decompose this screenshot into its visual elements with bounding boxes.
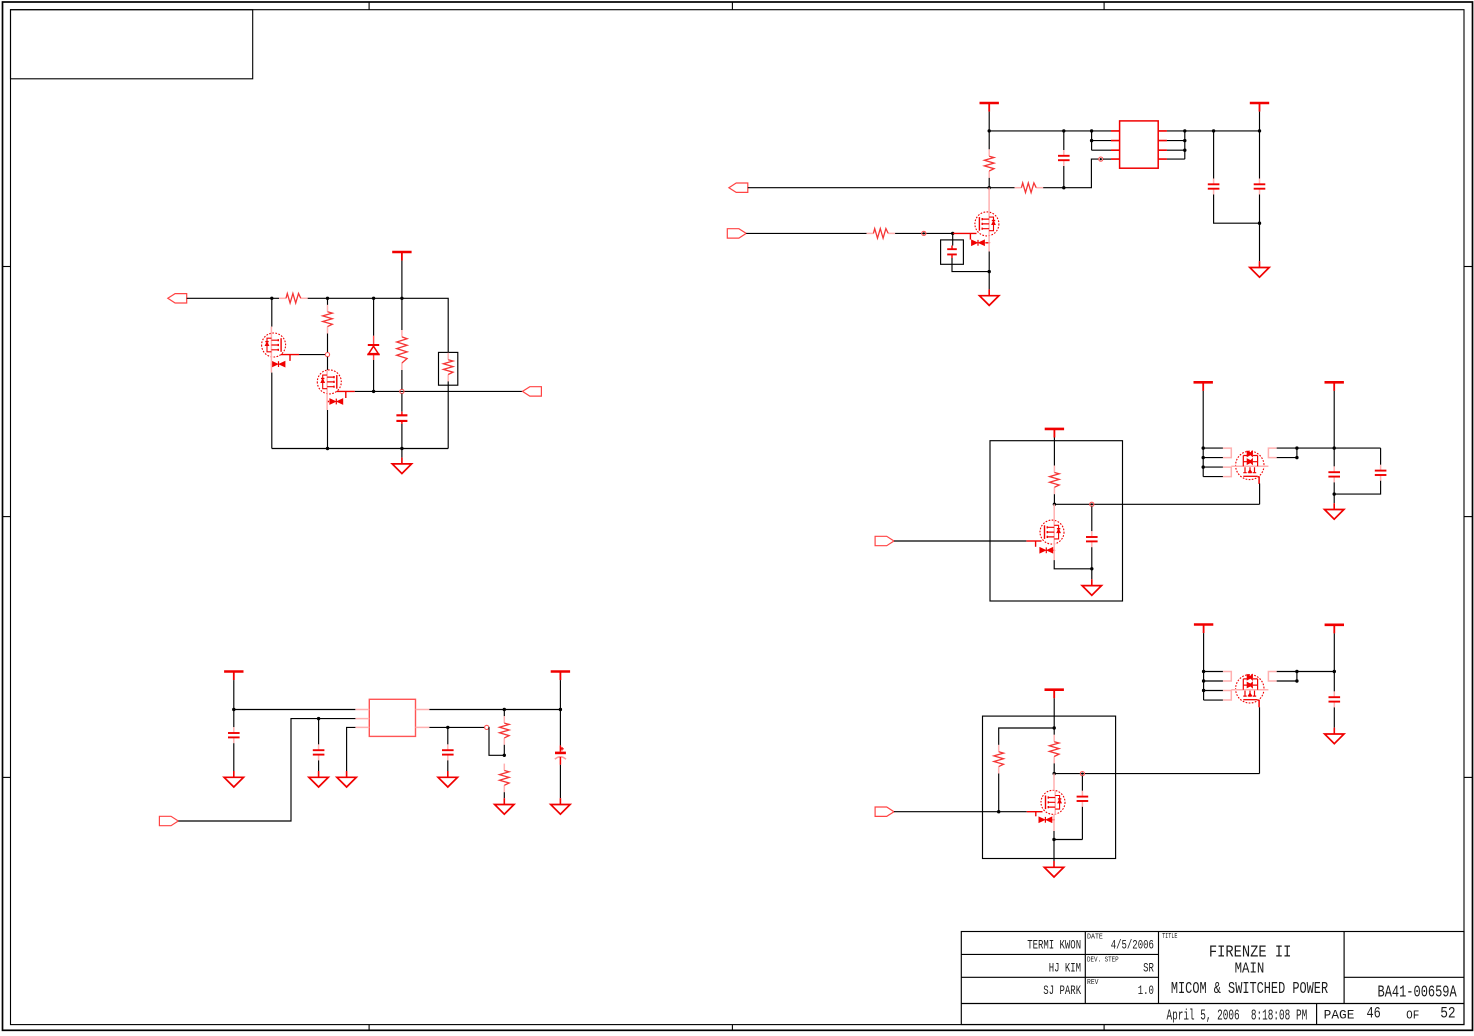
power VCC P2 (1250, 103, 1269, 112)
power VCC P9 (1325, 625, 1344, 634)
node source (1052, 838, 1055, 841)
power VCC P6 (1325, 382, 1344, 391)
wire Q7 output rail (1297, 671, 1334, 673)
zone tick bottom 1 (368, 1025, 370, 1031)
node P10 rail (232, 708, 235, 711)
capacitor C9 (1081, 776, 1083, 791)
capacitor C7 (1333, 448, 1335, 466)
svg-text:MICOM & SWITCHED POWER: MICOM & SWITCHED POWER (1171, 980, 1328, 999)
node rail P6 (1333, 446, 1336, 449)
wire Q4 source (1053, 544, 1055, 560)
wire mid rail (748, 187, 989, 189)
zone tick right 2 (1464, 516, 1473, 518)
node rail junction at pin link (1090, 129, 1093, 132)
resistor R1 vertical (984, 149, 994, 178)
wire top left (187, 297, 279, 299)
open circle D (1080, 772, 1084, 776)
power VCC P3 (392, 252, 411, 261)
node gate R8 (997, 810, 1000, 813)
node R7 bottom (1053, 503, 1056, 506)
power VCC P8 (1194, 625, 1213, 634)
IC U2 left pins (355, 710, 369, 728)
capacitor C8 (1380, 448, 1382, 465)
open circle node A (325, 353, 329, 357)
zener Z4 (1035, 541, 1037, 547)
regulator IC U1 (1120, 121, 1159, 168)
wire Q7 right pins (1277, 672, 1297, 682)
dual mosfet Q5 (1223, 448, 1277, 484)
wire mid rail (355, 390, 523, 392)
wire to ground (401, 449, 403, 458)
wire top rail (308, 298, 449, 352)
wire gate (894, 811, 1027, 813)
svg-text:TITLE: TITLE (1162, 933, 1177, 941)
zone tick top 2 (731, 2, 733, 10)
svg-text:FIRENZE II: FIRENZE II (1209, 943, 1292, 962)
open circle E (485, 725, 489, 729)
node top junction R4 (326, 297, 329, 300)
transistor Q2 mosfet (mirrored) (262, 333, 286, 357)
wire P10 down (233, 680, 235, 709)
svg-text:SJ PARK: SJ PARK (1043, 984, 1081, 998)
resistor R3h horizontal (1015, 183, 1044, 193)
node mid junction (988, 186, 991, 189)
zone tick left 3 (3, 776, 11, 778)
wire oc elbow (489, 727, 505, 755)
transistor Q6 mosfet (1041, 790, 1065, 814)
node mid D1 (372, 390, 375, 393)
wire output rail (1185, 130, 1260, 132)
connector EN1 (875, 536, 894, 545)
zone tick left 2 (3, 516, 11, 518)
svg-text:TERMI KWON: TERMI KWON (1027, 938, 1081, 952)
ground G13 (551, 798, 570, 814)
ground G5 (1325, 503, 1344, 519)
zone tick top 3 (1103, 2, 1105, 10)
svg-text:BA41-00659A: BA41-00659A (1378, 983, 1458, 1002)
zone tick bottom 2 (731, 1025, 733, 1031)
wire P9 down (1333, 633, 1335, 671)
wire power P3 down (401, 261, 403, 299)
wire oc to pin4 (1103, 158, 1111, 160)
zener Z2 (289, 355, 291, 361)
wire feedback from pin4 (1064, 159, 1099, 188)
capacitor C6 (1091, 506, 1093, 531)
wire left branch (999, 728, 1054, 745)
ground G4 (1082, 579, 1101, 595)
svg-text:PAGE: PAGE (1324, 1008, 1355, 1022)
ground G12 (495, 798, 514, 814)
connector OUT-ML (168, 294, 187, 303)
node bottom gnd (400, 447, 403, 450)
resistor R2 horizontal (867, 229, 896, 239)
connector EN2 (875, 807, 894, 816)
wire power P1 to rail (988, 112, 990, 131)
resistor R8 (994, 745, 1004, 774)
open circle gate (922, 231, 926, 235)
wire Q1 gate red (953, 232, 977, 234)
power VCC P5 (1194, 382, 1213, 391)
wire cap C1 leads (1063, 131, 1065, 188)
resistor R9 (1049, 735, 1059, 764)
node link pin2 (1090, 139, 1093, 142)
svg-text:46: 46 (1367, 1004, 1381, 1022)
capacitor C5 (401, 394, 403, 412)
wire pin3 to ground (347, 727, 356, 771)
node sense cap (446, 726, 449, 729)
ground G11 (438, 771, 457, 787)
resistor R7 (1050, 466, 1060, 495)
node Q5 left pins (1202, 446, 1205, 449)
transistor Q1 mosfet (975, 212, 999, 236)
wire mid rail right (989, 187, 1064, 189)
node R9 bottom (1053, 772, 1056, 775)
node source cap (1090, 567, 1093, 570)
wire oc to Q3 (327, 357, 329, 370)
node bottom Q3 (326, 447, 329, 450)
ground G7 (1325, 728, 1344, 744)
connector EN3 (159, 816, 178, 825)
wire Q2 gate red (281, 354, 299, 356)
node R10-R11 (503, 754, 506, 757)
ground G1 (1250, 261, 1269, 277)
resistor R5 vertical large (401, 298, 403, 330)
wire Q7 source down (1259, 707, 1261, 773)
node cap C1 bottom (1062, 186, 1065, 189)
wire Q5 left pins (1203, 448, 1223, 477)
zone tick bottom 3 (1103, 1025, 1105, 1031)
node rail P9 (1333, 670, 1336, 673)
power VCC P10 (224, 672, 243, 681)
resistor R11 (500, 764, 510, 793)
resistor R4 vertical (327, 298, 329, 305)
wire right pin link (1167, 131, 1185, 159)
zener Z3 (345, 391, 347, 398)
wire enable (178, 719, 355, 821)
wire Q1 source (988, 236, 990, 252)
node top junction D1 (372, 297, 375, 300)
connector IN1 (729, 183, 748, 192)
ground G8 (224, 771, 243, 787)
node rail junction at resistor (988, 129, 991, 132)
ground G6 (1044, 861, 1063, 877)
wire source to cap (1054, 839, 1082, 841)
wire input rail (234, 709, 356, 711)
wire Q2 source down (270, 357, 272, 373)
node power branch (1053, 726, 1056, 729)
wire Q5 output rail (1297, 447, 1381, 449)
enclosure box (983, 716, 1116, 858)
svg-text:DATE: DATE (1087, 934, 1103, 942)
node Q7 left pins (1202, 670, 1205, 673)
resistor R6 in box (439, 352, 458, 385)
wire cap C3 leads (1259, 131, 1261, 261)
open circle node B (400, 389, 404, 393)
zone tick right 1 (1464, 266, 1473, 268)
node output junction C2 (1212, 129, 1215, 132)
IC U2 right pins (416, 710, 430, 728)
wire output rail (429, 709, 560, 711)
node output junction P2 (1258, 129, 1261, 132)
wire cap C2 leads (1214, 131, 1260, 223)
wire P11 down (559, 680, 561, 709)
IC U1 left pins (1111, 131, 1120, 159)
svg-text:52: 52 (1440, 1004, 1455, 1022)
ground G9 (309, 771, 328, 787)
wire node to output (1054, 773, 1259, 775)
connector OUT-ML2 (523, 387, 542, 396)
wire to ground (988, 272, 990, 290)
transistor Q4 mosfet (1040, 520, 1064, 544)
svg-text:April 5, 2006 8:18:08 PM: April 5, 2006 8:18:08 PM (1167, 1008, 1308, 1025)
node output P11 (559, 708, 562, 711)
resistor R10 (503, 710, 505, 717)
capacitor C4 in box (941, 240, 964, 264)
capacitor C14 polarized (559, 710, 561, 746)
enclosure box (990, 441, 1123, 601)
wire power to resistor (1053, 438, 1055, 466)
open circle pin4 (1099, 157, 1103, 161)
capacitor C12 (318, 719, 320, 745)
wire P5 down (1202, 391, 1204, 448)
capacitor C1 (1058, 150, 1070, 166)
wire Q5 right pins (1277, 448, 1297, 458)
wire Q1 drain (988, 188, 990, 212)
capacitor C3 (1254, 179, 1266, 195)
wire Q3 source down (326, 394, 328, 410)
wire power P2 to rail (1259, 112, 1261, 131)
node source junction (988, 270, 991, 273)
resistor R3 horizontal (279, 294, 308, 304)
wire Q2 drain top (271, 298, 273, 326)
wire P6 down (1333, 391, 1335, 448)
wire Q7 left pins (1204, 672, 1223, 701)
wire node to output (1054, 503, 1259, 505)
wire sense line (429, 726, 484, 728)
capacitor C11 (233, 710, 235, 728)
capacitor C2 (1208, 179, 1220, 195)
svg-text:1.0: 1.0 (1138, 984, 1154, 998)
svg-text:4/5/2006: 4/5/2006 (1111, 938, 1154, 952)
wire Q5 source down (1259, 484, 1261, 505)
node output R (503, 708, 506, 711)
capacitor C10 (1333, 672, 1335, 692)
wire gate (894, 540, 1026, 542)
node enable cap (317, 717, 320, 720)
zone tick right 3 (1464, 776, 1473, 778)
svg-text:SR: SR (1143, 961, 1154, 975)
top-left revision box (11, 10, 253, 79)
zener Z5 (1035, 812, 1037, 817)
zone tick top 1 (368, 2, 370, 10)
node gate junction (951, 232, 954, 235)
svg-text:DEV. STEP: DEV. STEP (1087, 956, 1119, 964)
dual mosfet Q7 (1223, 672, 1277, 708)
wire gate line left (746, 232, 866, 234)
wire Q4 drain (1053, 504, 1055, 520)
svg-text:OF: OF (1406, 1009, 1419, 1022)
wire Q6 source (1053, 814, 1055, 831)
node C7 bottom (1333, 492, 1336, 495)
wire Q3 gate red (337, 390, 355, 392)
power VCC P4 (1045, 429, 1064, 438)
connector IN2 (727, 229, 746, 238)
ground G2 (980, 289, 999, 305)
power VCC P7 (1045, 690, 1064, 699)
node rail junction at cap C1 (1062, 129, 1065, 132)
wire to ground (1091, 569, 1093, 580)
wire main down to ground (1053, 840, 1055, 862)
zener Z1 gate-source (969, 233, 971, 239)
power VCC P1 (980, 103, 999, 112)
ground G3 (392, 458, 411, 474)
svg-text:MAIN: MAIN (1235, 961, 1265, 977)
wire pin1-3 link vertical (1092, 131, 1111, 150)
node C3 bottom junction (1258, 222, 1261, 225)
node right link pins (1183, 129, 1186, 132)
ground G10 (337, 771, 356, 787)
wire P8 down (1203, 633, 1205, 671)
regulator IC U2 (369, 699, 415, 736)
transistor Q3 mosfet (mirrored) (317, 370, 341, 394)
wire Q6 drain (1053, 774, 1055, 791)
zone tick left 1 (3, 266, 11, 268)
node top junction Q1 (270, 297, 273, 300)
IC U1 right pins (1158, 131, 1167, 159)
wire to ground (1333, 494, 1335, 503)
diode D1 (373, 298, 375, 336)
wire power down (1053, 698, 1055, 735)
open circle C (1090, 502, 1094, 506)
node top junction R5 (400, 297, 403, 300)
capacitor C13 (447, 727, 449, 744)
wire bottom rail (272, 448, 448, 450)
svg-text:HJ KIM: HJ KIM (1049, 961, 1081, 975)
wire resistor to mid rail (988, 131, 990, 188)
wire Q2 drain pink (270, 327, 272, 333)
wire gate line right (895, 232, 953, 234)
svg-text:REV: REV (1087, 979, 1099, 987)
wire top rail (989, 130, 1111, 132)
power VCC P11 (551, 672, 570, 681)
